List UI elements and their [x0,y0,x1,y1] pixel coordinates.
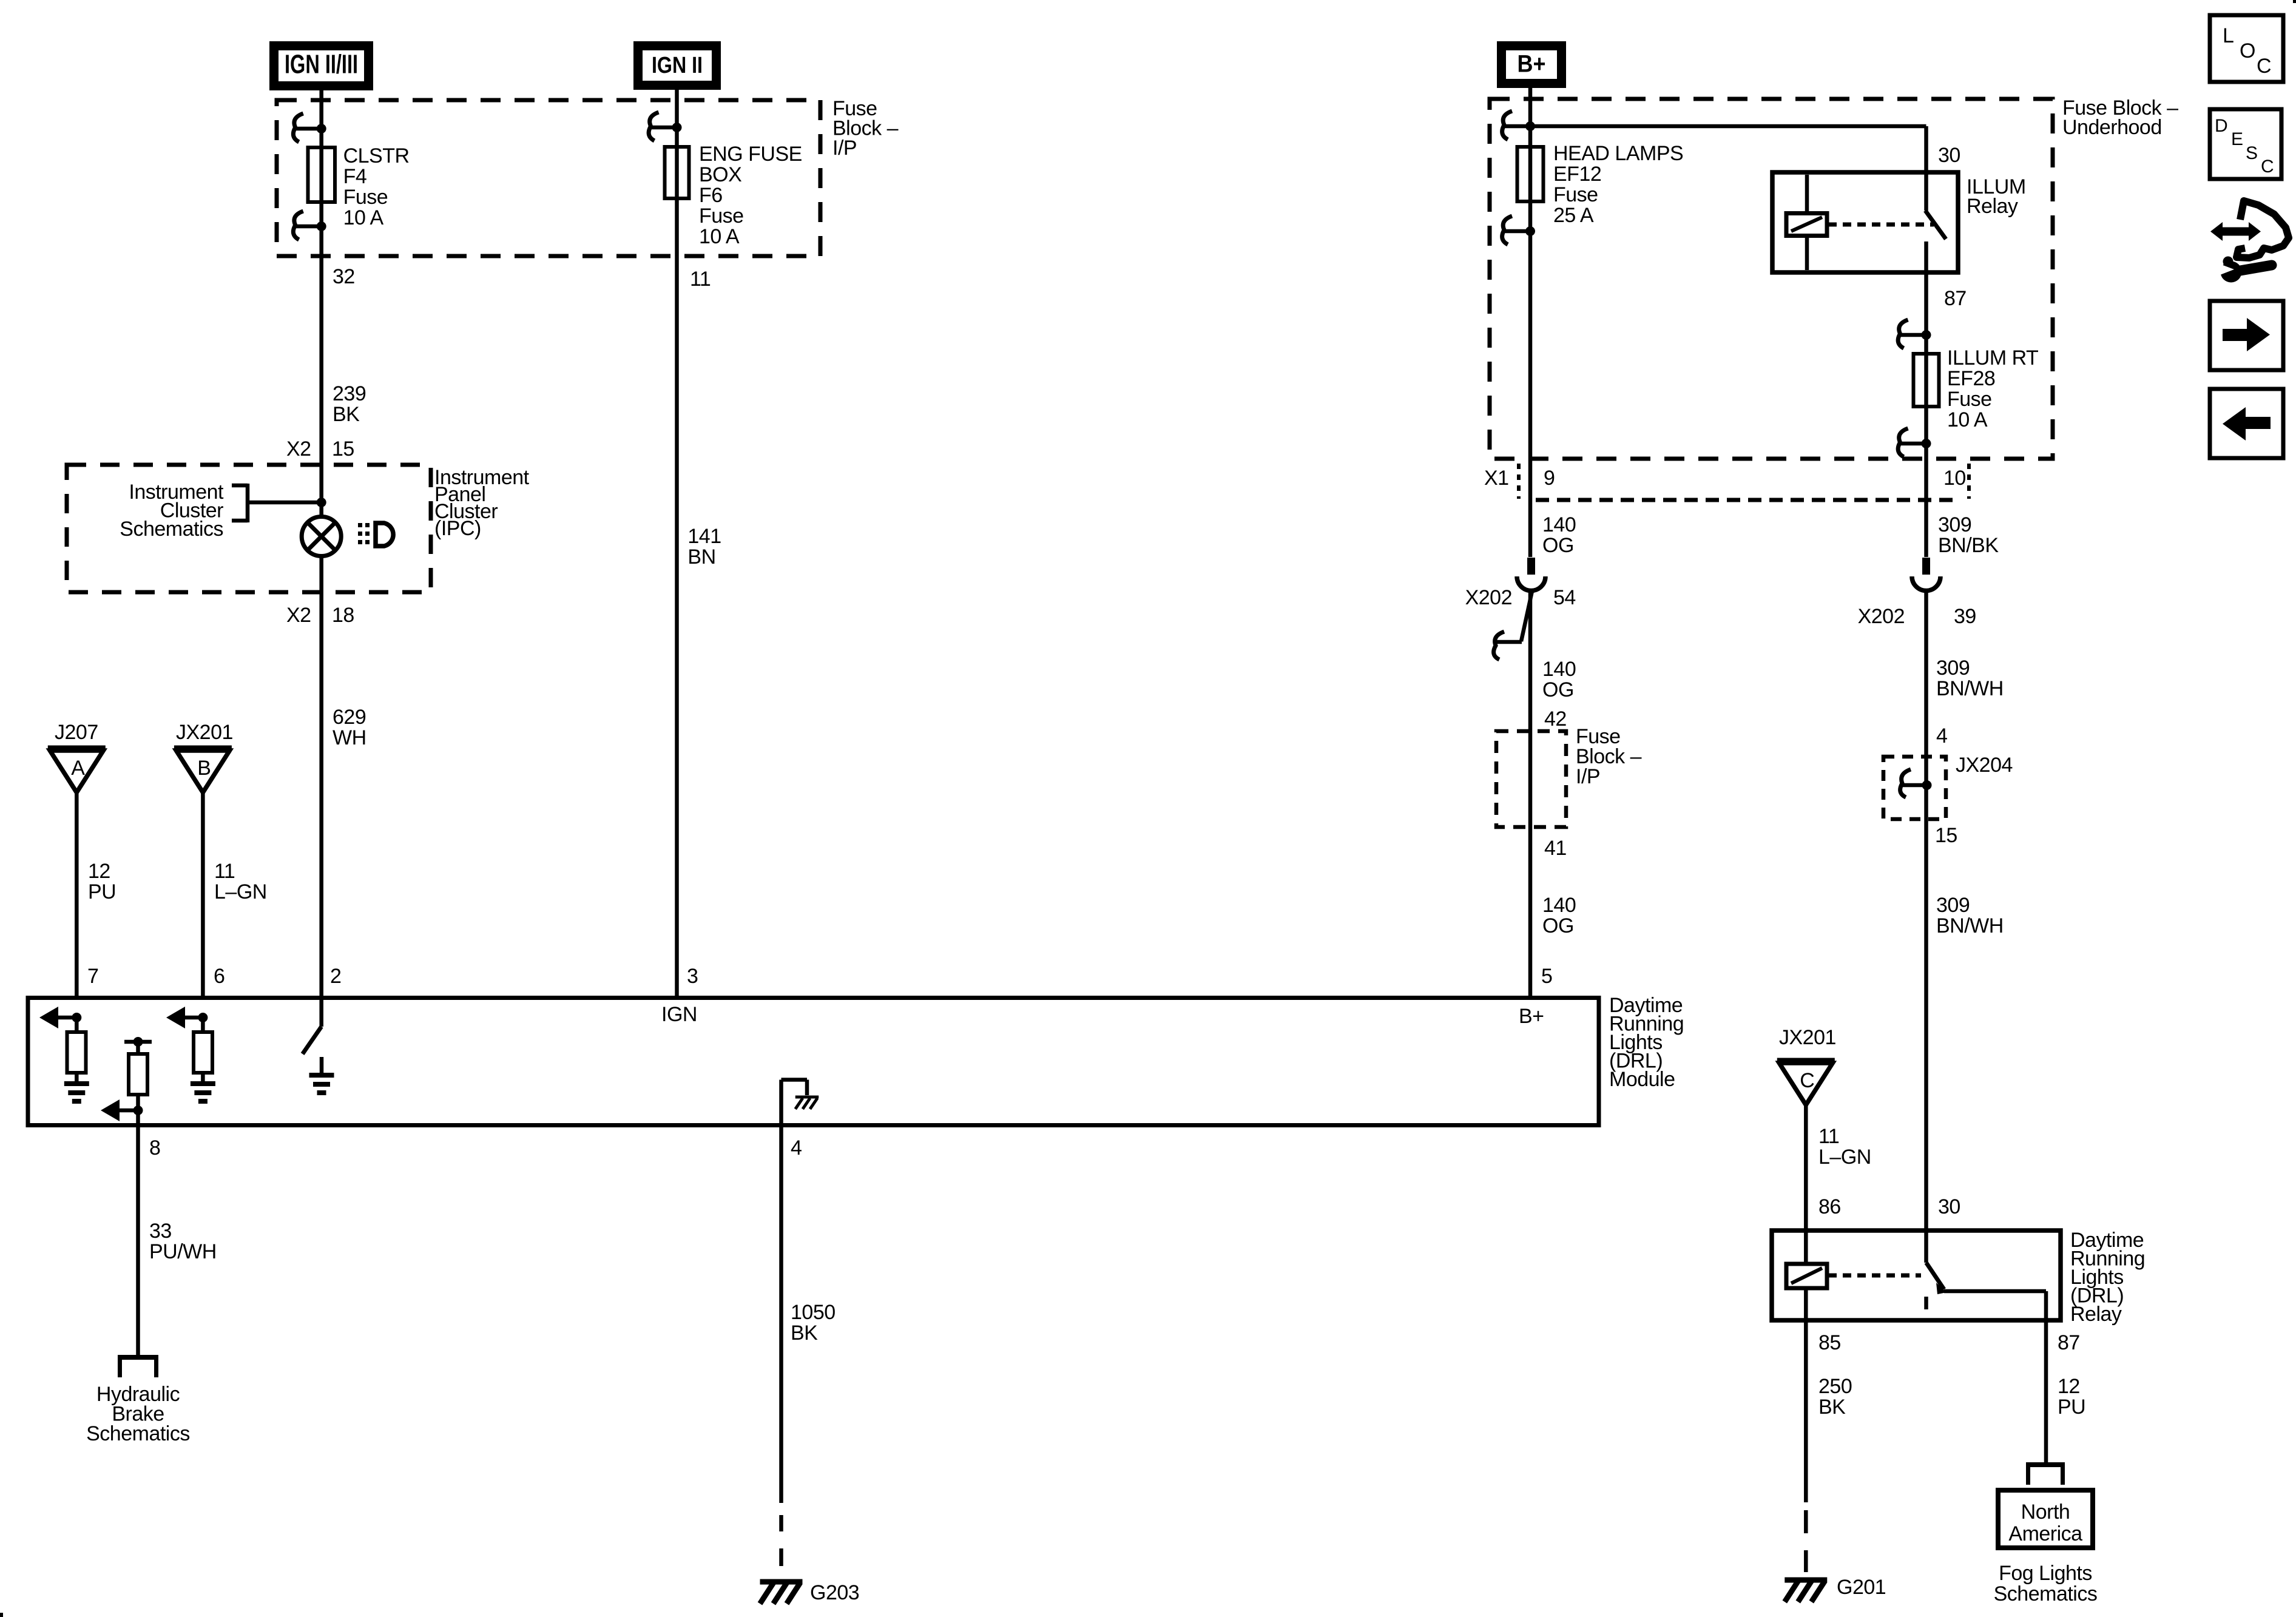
wire: relay 30 stub [1924,126,1928,211]
bracket to IC schematics [232,484,322,522]
Fuse Block - I/P dashed box [277,100,820,256]
junction [133,1106,143,1115]
svg-text:IGN II/III: IGN II/III [285,50,358,79]
North America option box [1998,1490,2093,1548]
svg-text:Fog Lights: Fog Lights [1999,1562,2092,1585]
junction [1922,780,1932,790]
terminal clip at JX204 [1900,769,1927,797]
svg-text:OG: OG [1542,534,1574,557]
power feed label B+ [1497,41,1566,88]
circuit 250 BK [1818,1375,1852,1419]
circuit 33 PU/WH [149,1220,217,1263]
wire: DRL pin 8, circuit 33 PU/WH [136,1126,140,1355]
ILLUM relay coil [1786,175,1827,270]
module internal: pin 8 branch resistor [124,1042,152,1126]
svg-text:PU: PU [88,880,116,903]
svg-text:BN/BK: BN/BK [1938,534,1999,557]
svg-text:F6: F6 [699,184,723,207]
circuit 239 BK [333,382,366,426]
wire: circuit 309 BN/WH down to DRL relay 30 [1924,590,1928,1232]
module internal: pin 6 sense branch [185,1016,203,1020]
label: HEAD LAMPS EF12 Fuse 25 A [1553,142,1683,227]
svg-text:7: 7 [87,965,98,988]
wire: ILLUM relay 87 to fuse EF28 and circuit 309 [1924,241,1928,557]
fuse HEAD LAMPS EF12 25A [1518,147,1544,201]
module internal: pin 4 ground [782,1080,808,1126]
svg-text:X202: X202 [1465,586,1512,609]
svg-text:BK: BK [791,1322,818,1345]
svg-text:Underhood: Underhood [2062,116,2162,139]
svg-text:10 A: 10 A [699,225,740,248]
module internal: pin 2 switch to ground [319,998,323,1027]
fuse clip (HEAD LAMPS lower) [1502,216,1530,245]
svg-text:309: 309 [1936,657,1970,680]
DRL relay coil [1786,1264,1827,1288]
svg-text:CLSTR: CLSTR [343,144,410,167]
fuse ILLUM RT EF28 10A [1914,354,1939,407]
connector X202 cavity 39 [1912,558,1940,590]
svg-text:11: 11 [1818,1125,1839,1148]
wire [201,1018,205,1084]
svg-text:15: 15 [332,437,354,461]
svg-text:BK: BK [1818,1396,1846,1419]
label: CLSTR F4 Fuse 10 A [343,144,410,229]
resistor (pin 7 pull-down) [67,1032,86,1073]
circuit 11 L-GN [1818,1125,1871,1169]
ground G201 [1784,1580,1827,1602]
svg-text:B+: B+ [1518,51,1546,78]
connector triangle B (JX201) [174,748,232,792]
icon: panel with double arrow and wrench [2210,201,2289,283]
svg-text:10: 10 [1943,467,1966,490]
svg-text:25 A: 25 A [1553,204,1594,227]
svg-text:J207: J207 [55,721,98,744]
ILLUM relay switch blade [1925,211,1946,239]
fuse clip (CLSTR lower) [293,211,321,240]
connector triangle A (J207) [48,748,106,792]
svg-text:JX204: JX204 [1956,754,2013,777]
circuit 140 OG [1542,658,1576,701]
svg-text:BOX: BOX [699,163,741,186]
svg-text:HEAD LAMPS: HEAD LAMPS [1553,142,1683,165]
label: Daytime Running Lights (DRL) Relay [2070,1229,2145,1326]
icon: back arrow button [2210,389,2283,458]
terminal clip at X202-54 [1494,632,1522,660]
svg-text:C: C [1800,1069,1814,1092]
module internal: pin 7 sense branch [58,1016,76,1020]
fuse clip (ILLUM RT lower) [1898,428,1926,457]
svg-text:10 A: 10 A [1947,408,1988,431]
svg-text:30: 30 [1938,1195,1960,1218]
wire: B+ feed, circuit 140 OG (right column) [1528,88,1533,557]
connector X1 band [1519,464,1969,500]
svg-text:3: 3 [687,965,698,988]
svg-text:629: 629 [333,706,366,729]
svg-text:America: America [2008,1522,2082,1545]
label: ILLUM Relay [1967,175,2026,218]
svg-text:8: 8 [149,1136,160,1160]
wire [75,1018,79,1084]
power feed label IGN II/III [269,41,373,90]
svg-text:1050: 1050 [791,1301,836,1324]
junction [317,221,326,231]
svg-text:BN/WH: BN/WH [1936,914,2004,937]
chassis ground (internal, pin 4) [795,1097,819,1109]
svg-text:140: 140 [1542,513,1576,536]
label: ENG FUSE BOX F6 Fuse 10 A [699,143,802,248]
connector triangle C (JX201) [1777,1061,1835,1105]
svg-text:30: 30 [1938,144,1960,167]
svg-text:OG: OG [1542,914,1574,937]
svg-text:85: 85 [1818,1331,1841,1354]
power feed label IGN II [633,41,721,90]
arrow (to pin 6 net) [166,1007,185,1028]
relay actuation dashed link [1828,1274,1921,1278]
Instrument Panel Cluster (IPC) dashed box [67,465,431,592]
ground (internal) [64,1084,89,1101]
wire stub [320,1057,324,1075]
svg-text:EF28: EF28 [1947,367,1995,390]
svg-text:X202: X202 [1858,605,1905,628]
wire: B+ to ILLUM relay pin 30 [1530,124,1926,129]
wire: JX201 C to DRL relay 86, circuit 11 L-GN [1804,1103,1808,1264]
label: North America [2008,1501,2082,1545]
svg-text:BN/WH: BN/WH [1936,677,2004,700]
svg-text:141: 141 [687,525,721,548]
label: Hydraulic Brake Schematics [86,1383,190,1445]
svg-text:239: 239 [333,382,366,405]
resistor (pin 6 pull-down) [194,1032,212,1073]
svg-text:BN: BN [687,545,715,569]
svg-text:Module: Module [1609,1068,1675,1091]
DRL relay switch [1926,1232,2047,1323]
svg-text:309: 309 [1936,894,1970,917]
svg-text:Fuse: Fuse [699,204,744,228]
label: Fuse Block - Underhood [2062,96,2178,139]
circuit 309 BN/WH [1936,657,2004,700]
label: Fog Lights Schematics [1994,1562,2098,1605]
circuit 1050 BK [791,1301,836,1345]
icon: LOC button [2210,15,2283,82]
svg-text:(IPC): (IPC) [434,517,481,540]
wire: DRL relay 85, circuit 250 BK to G201 [1804,1288,1808,1502]
label: Fuse Block - I/P [832,97,899,160]
svg-text:L: L [2223,24,2234,47]
fuse clip (CLSTR upper) [293,113,321,142]
svg-text:Schematics: Schematics [120,518,223,541]
label: Instrument Panel Cluster (IPC) [434,466,530,540]
junction [133,1037,143,1047]
page corner marks [0,1613,3,1617]
svg-text:Schematics: Schematics [1994,1582,2098,1605]
svg-text:E: E [2231,129,2243,149]
arrow (to pin 8 net) [101,1099,120,1121]
circuit 12 PU [2058,1375,2085,1419]
ground G203 [760,1582,803,1604]
svg-text:39: 39 [1954,605,1976,628]
svg-text:87: 87 [1944,287,1967,310]
svg-text:ILLUM RT: ILLUM RT [1947,346,2038,370]
svg-text:Schematics: Schematics [86,1422,190,1445]
circuit 309 BN/WH [1936,894,2004,937]
circuit 141 BN [687,525,721,569]
svg-text:Relay: Relay [1967,195,2018,218]
circuit 140 OG [1542,894,1576,937]
svg-text:33: 33 [149,1220,172,1243]
svg-text:86: 86 [1818,1195,1841,1218]
svg-text:G203: G203 [810,1581,859,1604]
fuse CLSTR F4 10A [308,147,336,202]
svg-text:JX201: JX201 [1779,1026,1836,1049]
junction [1525,121,1535,131]
svg-text:12: 12 [88,860,110,883]
svg-text:ENG FUSE: ENG FUSE [699,143,802,166]
junction [317,498,326,507]
wire dash to G203 [779,1548,783,1566]
svg-text:IGN II: IGN II [652,53,703,78]
svg-text:WH: WH [333,726,366,749]
svg-text:15: 15 [1935,824,1957,847]
Fuse Block - I/P pass-through dashed box [1496,731,1566,827]
junction [672,123,682,132]
svg-text:5: 5 [1541,965,1552,988]
svg-text:87: 87 [2058,1331,2080,1354]
fuse clip (HEAD LAMPS upper) [1502,111,1530,140]
label: Fuse Block - I/P [1576,725,1642,788]
svg-text:OG: OG [1542,678,1574,701]
svg-text:11: 11 [690,268,711,291]
icon: DESC button [2210,109,2281,179]
ground (internal) [309,1075,334,1093]
switch blade [303,1027,322,1054]
svg-text:250: 250 [1818,1375,1852,1398]
ILLUM relay box [1772,172,1958,272]
svg-text:6: 6 [214,965,225,988]
svg-text:Relay: Relay [2070,1303,2122,1326]
svg-text:S: S [2246,143,2258,163]
svg-text:9: 9 [1544,467,1555,490]
svg-text:4: 4 [791,1136,802,1160]
circuit 140 OG [1542,513,1576,557]
svg-text:18: 18 [332,604,354,627]
svg-text:140: 140 [1542,894,1576,917]
svg-text:41: 41 [1544,837,1567,860]
wire dash to G201 [1804,1510,1808,1533]
junction [198,1013,208,1022]
svg-text:X2: X2 [286,437,311,461]
icon: next arrow button [2210,301,2283,370]
svg-text:B: B [197,757,211,780]
wire: JX201 B to DRL pin 6, circuit 11 L-GN [201,791,205,998]
junction [1922,330,1931,340]
svg-text:L–GN: L–GN [1818,1146,1871,1169]
svg-text:Fuse: Fuse [343,186,388,209]
circuit 309 BN/BK [1938,513,1999,557]
svg-text:C: C [2261,157,2274,177]
svg-text:309: 309 [1938,513,1971,536]
svg-text:42: 42 [1544,707,1567,731]
relay actuation dashed link [1828,223,1934,227]
svg-text:10 A: 10 A [343,206,384,229]
svg-text:JX201: JX201 [176,721,233,744]
wire: J207 A to DRL pin 7, circuit 12 PU [75,791,79,998]
wire dash to G201 [1804,1550,1808,1572]
wire: DRL pin 4, circuit 1050 BK to G203 [779,1126,783,1503]
svg-text:4: 4 [1936,724,1947,748]
svg-text:D: D [2215,116,2227,136]
Daytime Running Lights (DRL) Relay box [1772,1230,2061,1320]
circuit 11 L-GN [214,860,267,903]
svg-text:Fuse: Fuse [1553,183,1598,206]
arrow (to pin 7 net) [39,1007,58,1028]
junction block JX204 dashed box [1883,757,1946,819]
svg-text:L–GN: L–GN [214,880,267,903]
wire: DRL relay 87, circuit 12 PU [2044,1320,2048,1463]
ground (internal) [191,1084,215,1101]
svg-text:O: O [2240,39,2255,62]
svg-text:I/P: I/P [1576,765,1600,788]
circuit 12 PU [88,860,116,903]
svg-text:X2: X2 [286,604,311,627]
off-page connector (hydraulic brake) [118,1357,158,1377]
svg-text:Fuse: Fuse [1947,388,1992,411]
resistor (pin 8 branch) [129,1054,147,1095]
svg-text:PU: PU [2058,1396,2085,1419]
Daytime Running Lights (DRL) Module box [28,998,1599,1126]
junction [317,124,326,133]
headlamp beam icon [358,523,393,546]
svg-text:A: A [71,757,85,780]
svg-text:IGN: IGN [661,1003,697,1026]
connector lead [1521,590,1533,641]
svg-text:North: North [2021,1501,2070,1524]
svg-text:PU/WH: PU/WH [149,1240,217,1263]
svg-text:I/P: I/P [832,137,857,160]
svg-text:12: 12 [2058,1375,2080,1398]
fuse ENG FUSE BOX F6 10A [665,147,689,198]
connector X202 cavity 54 [1517,558,1545,590]
svg-text:32: 32 [333,265,355,288]
svg-text:B+: B+ [1519,1005,1544,1028]
wire: IGN II feed, circuit 141 BN (middle column) [675,88,679,998]
svg-text:140: 140 [1542,658,1576,681]
indicator lamp (IPC illumination) [302,517,341,556]
svg-text:BK: BK [333,403,360,426]
label: Daytime Running Lights (DRL) Module [1609,994,1684,1091]
fuse clip (ILLUM RT upper) [1898,320,1926,348]
fuse clip (ENG FUSE) [649,112,677,141]
label: Instrument Cluster Schematics [120,481,224,541]
off-page connector (fog lights) [2026,1465,2065,1485]
svg-text:EF12: EF12 [1553,163,1601,186]
junction [72,1013,81,1022]
circuit 629 WH [333,706,366,749]
svg-text:2: 2 [330,965,341,988]
svg-text:54: 54 [1553,586,1576,609]
Fuse Block - Underhood dashed box [1490,99,2053,459]
svg-text:C: C [2257,55,2271,78]
svg-text:G201: G201 [1837,1576,1886,1599]
junction [1525,226,1535,236]
wire: IGN II/III feed, circuit 239/629 (left column) [319,88,323,998]
label: ILLUM RT EF28 Fuse 10 A [1947,346,2038,431]
svg-text:X1: X1 [1484,467,1509,490]
junction [1922,439,1931,448]
wire dash to G203 [779,1515,783,1531]
svg-text:F4: F4 [343,165,367,188]
svg-text:11: 11 [214,860,235,883]
